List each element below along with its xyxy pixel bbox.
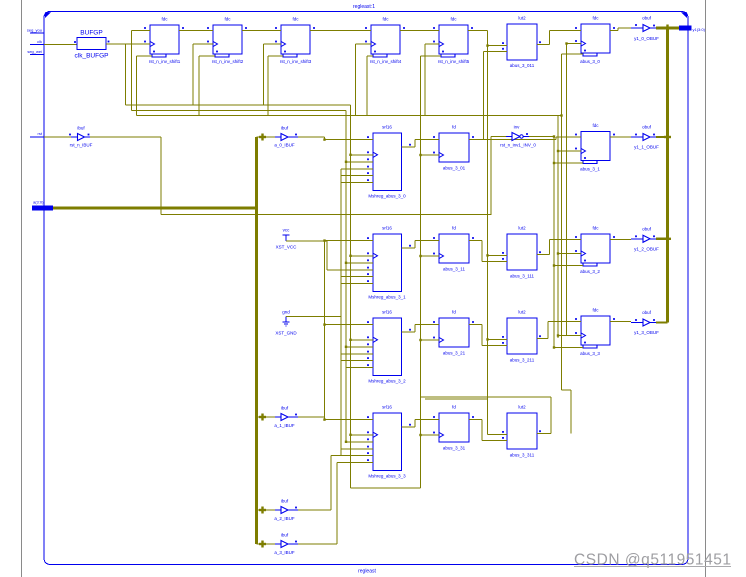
wire Mshreg_abus_3_0 Q to fd D [402,140,433,148]
svg-text:BUFGP: BUFGP [80,30,102,37]
module name label regleast:1 (top) [353,4,375,10]
wire a_0 tap [257,136,276,138]
wire fdc4 CLR riser [367,56,373,116]
wire Mshreg_abus_3_1 Q to fd D [402,241,433,249]
junction y1 bus row 3 [664,235,671,242]
svg-text:ibuf: ibuf [281,533,289,538]
svg-text:obuf: obuf [642,226,652,231]
svg-text:rst_n_inv_shift3: rst_n_inv_shift3 [280,59,312,64]
svg-text:ibuf: ibuf [77,126,85,131]
buffer a_3_IBUF (ibuf) [274,533,298,556]
svg-text:fd: fd [452,310,456,315]
flip-flop abus_3_01 (fd) [432,125,476,171]
wire clock tap to abus_3_11 C [419,255,432,257]
svg-text:clk: clk [37,39,42,44]
wire y1_1_OBUF to y1 bus [656,136,668,138]
wire inv output to clear column [529,136,554,138]
svg-text:lut2: lut2 [518,226,526,231]
wire clock tap to abus_3_31 C [419,434,432,436]
wire a_0_IBUF output to srl16 data column [298,137,325,140]
wire y1 bus vertical (thick) [666,28,669,323]
flip-flop rst_n_inv_shift4 (fdc) [365,17,406,65]
svg-text:fdc: fdc [382,17,389,22]
svg-text:obuf: obuf [642,125,652,130]
wire fdc2 CLR riser [199,56,215,116]
wire shift2.Q to shift3.D [243,30,281,32]
buffer U_clk BUFGP clk_BUFGP [74,30,109,60]
svg-text:fdc: fdc [592,16,599,21]
CSDN watermark text [574,552,731,569]
svg-text:y1_1_OBUF: y1_1_OBUF [634,145,659,150]
wire fd abus_3_21 Q to lut2 I1 [476,325,502,346]
junction a bus / a_1 tap [259,414,266,421]
svg-text:abus_3_0: abus_3_0 [580,59,600,64]
svg-text:fdc: fdc [592,226,599,231]
svg-text:abus_3_011: abus_3_011 [510,63,535,68]
lut abus_3_011 (lut2) [501,16,543,69]
buffer y1_0_OBUF (obuf) [631,16,659,42]
svg-text:abus_3_01: abus_3_01 [443,166,466,171]
svg-text:Mshreg_abus_3_3: Mshreg_abus_3_3 [368,474,406,479]
svg-text:srl16: srl16 [382,405,392,410]
svg-text:abus_3_3: abus_3_3 [580,351,600,356]
svg-text:a_2_IBUF: a_2_IBUF [274,516,295,521]
wire clock branch riser at x=125.5 [125,44,127,105]
flip-flop abus_3_1 (fdc) [575,123,616,172]
wire lut2 abus_3_011 I1 riser x=483.5 [484,51,502,139]
wire taps into Mshreg_abus_3_3 pins [323,418,366,462]
buffer y1_3_OBUF (obuf) [616,310,659,335]
wire clock tap to fdc abus_3_0 C (row1) [565,42,575,44]
wire riser x=548 row4 [543,322,575,339]
wire row5 lut2 output riser x=551 [421,397,552,434]
left gray page rule [21,0,23,577]
wire rst_n_IBUF output to rst rail [90,137,491,215]
wire clock tap to abus_3_3 C [557,334,575,336]
buffer rst_n_IBUF (ibuf) [69,126,93,148]
buffer y1_1_OBUF (obuf) [616,125,659,150]
flip-flop abus_3_11 (fd) [432,226,476,272]
svg-text:y1_2_OBUF: y1_2_OBUF [634,246,659,251]
wire a_3_IBUF output riser [298,463,337,544]
svg-text:fdc: fdc [450,17,457,22]
svg-text:regleast: regleast [358,569,376,575]
wire fdc2 C riser [193,44,207,105]
wire a_3 tap [257,543,276,545]
svg-text:CSDN @q511951451: CSDN @q511951451 [574,552,731,569]
wire fdc abus_3_0 Q to obuf y1_0 [618,28,637,31]
svg-text:Mshreg_abus_3_1: Mshreg_abus_3_1 [368,295,406,300]
wire gnd to srl16 address column [286,169,341,455]
wire vcc to srl16 address column [286,241,366,270]
port seg_you stub (top-left) [27,28,44,34]
svg-text:obuf: obuf [642,16,652,21]
wire y1_0 to output port [656,27,679,30]
wire shift4.Q to shift5.D [400,30,439,32]
svg-text:clk_BUFGP: clk_BUFGP [75,53,109,60]
wire y1_2_OBUF to y1 bus [656,238,668,240]
wire rail A clock distribution y=105 [126,104,351,106]
lut abus_3_211 (lut2) [501,310,543,363]
wire rail C clear net y=115.5 [137,56,562,116]
wire shift1.Q to shift2.D [179,30,213,32]
wire clock tap to abus_3_1 C [557,150,575,152]
svg-text:srl16: srl16 [382,310,392,315]
svg-text:XST_GND: XST_GND [275,331,297,336]
wire clock riser x=351 to srl16 clocks [351,105,421,488]
wire rail C descender x=561.5 [560,54,562,390]
wire a bus thick horizontal [53,206,257,209]
wire clock tap to abus_3_01 C [419,154,432,156]
wire fdc3 C riser [264,44,276,105]
wire clear tap to abus_3_3 CLR [553,346,583,348]
port a(3:0) bus connector [32,200,53,211]
wire rst_n port to ibuf [44,136,71,138]
wire clock tap to abus_3_2 C [557,252,575,254]
svg-text:rst_n_inv_shift5: rst_n_inv_shift5 [438,59,470,64]
wire rail C descender link [562,390,572,434]
svg-text:abus_3_111: abus_3_111 [510,274,535,279]
right gray page rule [705,0,707,577]
port seg_wei stub [27,49,44,55]
svg-text:fdc: fdc [592,308,599,313]
svg-text:obuf: obuf [642,310,652,315]
wire a_1 tap [257,416,276,418]
wire rail B feedback y=110.5 [132,31,347,111]
svg-text:vcc: vcc [283,228,291,233]
svg-text:abus_3_1: abus_3_1 [580,167,600,172]
power XST_VCC (vcc) [276,228,298,250]
wire clk port to BUFGP input [44,44,77,46]
wire fdc5 CLR riser and clock column x=420.5 [421,56,442,488]
svg-text:abus_3_21: abus_3_21 [443,351,466,356]
junction a bus / a_0 tap [259,134,266,141]
buffer a_1_IBUF (ibuf) [274,406,298,429]
svg-text:fdc: fdc [592,123,599,128]
port y1(3:0) bus connector [679,26,706,33]
wire lut2 abus_3_011 output to fdc abus_3_0 D [543,31,575,45]
wire fdc3 CLR riser [268,56,283,116]
shift register Mshreg_abus_3_3 (srl16) [366,405,415,479]
flip-flop abus_3_21 (fd) [432,310,476,356]
flip-flop abus_3_3 (fdc) [575,308,616,357]
wire data column x=324.5 rows 3-5 [324,241,326,420]
lut abus_3_111 (lut2) [501,226,543,279]
svg-text:a(3:0): a(3:0) [33,200,44,205]
inverter rst_n_inv1_INV_0 (inv) [500,125,536,148]
wire Mshreg_abus_3_3 Q to fd D [402,420,433,428]
wire y1_3_OBUF to y1 bus [656,321,668,323]
flip-flop rst_n_inv_shift1 (fdc) [144,17,185,65]
junction y1 bus row 2 [664,134,671,141]
svg-text:srl16: srl16 [382,226,392,231]
svg-text:rst_n_inv_shift1: rst_n_inv_shift1 [149,59,181,64]
svg-text:fd: fd [452,226,456,231]
svg-text:XST_VCC: XST_VCC [276,245,298,250]
wire clear column x=554 [553,135,555,347]
svg-text:lut2: lut2 [518,16,526,21]
svg-text:ibuf: ibuf [281,406,289,411]
wire Mshreg_abus_3_2 Q to fd D [402,325,433,333]
junction y1 bus at top [664,25,671,32]
svg-text:lut2: lut2 [518,405,526,410]
flip-flop abus_3_31 (fd) [432,405,476,451]
svg-text:y1(3:0): y1(3:0) [693,27,706,32]
shift register Mshreg_abus_3_1 (srl16) [366,226,415,300]
flip-flop rst_n_inv_shift5 (fdc) [433,17,474,65]
shift register Mshreg_abus_3_2 (srl16) [366,310,415,384]
svg-text:fdc: fdc [292,17,299,22]
svg-text:Mshreg_abus_3_0: Mshreg_abus_3_0 [368,194,406,199]
svg-text:fd: fd [452,405,456,410]
module top-left corner mark [45,12,51,18]
wire taps into Mshreg_abus_3_1 pins [323,239,366,283]
svg-text:inv: inv [514,125,521,130]
wire taps into Mshreg_abus_3_2 pins [323,323,366,367]
svg-text:lut2: lut2 [518,310,526,315]
wire clear tap to fdc abus_3_0 CLR (row1) [562,53,584,55]
wire a bus thick vertical riser [255,137,258,544]
svg-text:gnd: gnd [282,310,290,315]
svg-text:rst_n_IBUF: rst_n_IBUF [70,143,93,148]
wire clk BUFGP output to fdc1 C pin [106,43,150,45]
shift register Mshreg_abus_3_0 (srl16) [366,125,415,199]
svg-text:y1_3_OBUF: y1_3_OBUF [634,330,659,335]
wire riser x=549.5 row3 [543,240,575,255]
svg-text:y1_0_OBUF: y1_0_OBUF [634,36,659,41]
wire fdc4 C riser [356,44,366,116]
flip-flop rst_n_inv_shift2 (fdc) [207,17,248,65]
flip-flop abus_3_2 (fdc) [575,226,616,275]
wire net riser x=487.5 (lut2 I0 feeds) [486,31,501,435]
junction a bus / a_2 tap [259,507,266,514]
svg-text:abus_3_2: abus_3_2 [580,269,600,274]
svg-text:rst_n_inv_shift4: rst_n_inv_shift4 [370,59,402,64]
wire fd abus_3_01 Q to fdc abus_3_1 D [476,137,576,140]
module top-right corner mark [681,12,687,18]
svg-text:ibuf: ibuf [281,126,289,131]
buffer y1_2_OBUF (obuf) [616,226,659,251]
ground XST_GND (gnd) [275,310,297,336]
wire taps into Mshreg_abus_3_0 pins [323,138,366,182]
svg-text:seg_wei: seg_wei [27,49,42,54]
wire fd abus_3_31 Q to lut2 I1 [476,420,502,441]
svg-text:fd: fd [452,125,456,130]
svg-text:fdc: fdc [224,17,231,22]
svg-text:a_0_IBUF: a_0_IBUF [274,143,295,148]
svg-text:seg_you: seg_you [27,28,42,33]
wire fdc5 C riser [425,44,433,116]
svg-text:abus_3_311: abus_3_311 [510,453,535,458]
port clk stub [30,39,44,45]
svg-text:abus_3_11: abus_3_11 [443,267,465,272]
junction a bus / a_3 tap [259,541,266,548]
wire fd abus_3_11 Q to lut2 I1 [476,241,502,262]
lut abus_3_311 (lut2) [501,405,543,458]
svg-text:rst_n_inv1_INV_0: rst_n_inv1_INV_0 [500,143,536,148]
wire clear tap to abus_3_2 CLR [553,264,583,266]
svg-text:ibuf: ibuf [281,499,289,504]
buffer a_2_IBUF (ibuf) [274,499,298,522]
buffer a_0_IBUF (ibuf) [274,126,298,148]
wire a_2_IBUF output riser [298,456,366,511]
wire a_1_IBUF output joins data column [298,416,325,418]
wire clock column x=558 [557,116,559,338]
wire shift3.Q to shift4.D [312,30,371,32]
wire shift5.Q drop to net riser [470,30,488,32]
wire clock tap to abus_3_21 C [419,339,432,341]
wire rail B riser x=346 [345,111,347,442]
svg-text:a_1_IBUF: a_1_IBUF [274,423,295,428]
svg-text:srl16: srl16 [382,125,392,130]
flip-flop abus_3_0 (fdc) [575,16,618,65]
svg-text:a_3_IBUF: a_3_IBUF [274,550,295,555]
svg-text:regleast:1: regleast:1 [353,4,375,10]
svg-text:rst_n_inv_shift2: rst_n_inv_shift2 [212,59,244,64]
svg-text:Mshreg_abus_3_2: Mshreg_abus_3_2 [368,379,406,384]
wire a_2 tap [257,509,276,511]
wire column x=566.5 [566,44,568,336]
wire net riser x=493.5 (rst to inv / lut2 row4 I0) [491,137,506,216]
module name label regleast (bottom) [358,569,376,575]
svg-text:abus_3_211: abus_3_211 [510,358,535,363]
flip-flop rst_n_inv_shift3 (fdc) [275,17,316,65]
wire clear tap to abus_3_1 CLR [553,162,583,164]
svg-text:fdc: fdc [161,17,168,22]
port rst_n stub [30,131,44,137]
svg-text:abus_3_31: abus_3_31 [443,446,466,451]
